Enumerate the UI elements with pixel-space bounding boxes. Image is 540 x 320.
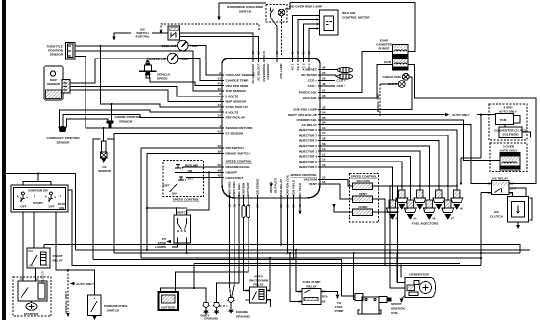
pin 12 INJECTOR 4	[299, 152, 326, 158]
svg-text:7: 7	[219, 108, 221, 112]
svg-text:EGR: EGR	[384, 60, 391, 64]
evap canister purge solenoid L1	[376, 39, 408, 58]
junction dot	[103, 127, 105, 129]
border bar left	[2, 0, 6, 320]
svg-text:PWR GRD: PWR GRD	[232, 181, 236, 197]
pin 34 AC RELAY	[301, 121, 326, 127]
svg-text:15: 15	[322, 158, 326, 162]
fuel injector #6	[423, 200, 436, 221]
svg-text:SENSOR RETURN: SENSOR RETURN	[226, 126, 254, 130]
wire asd relay coil right	[267, 258, 271, 291]
A/C clutch	[490, 197, 532, 230]
wire dashed A/C clutch sense	[161, 24, 259, 31]
A/C switch 4-dr panel	[112, 26, 179, 41]
svg-text:OVERDR SOL: OVERDR SOL	[297, 118, 318, 122]
svg-text:PWR GRD: PWR GRD	[227, 181, 231, 197]
node TO STOP LAMPS	[155, 237, 171, 249]
junction dot	[111, 103, 113, 105]
wire dashed O/D lamp to pin 37	[281, 16, 283, 55]
svg-text:RESUME/ACCEL: RESUME/ACCEL	[226, 165, 251, 169]
overdrive solenoid enclosure	[490, 143, 527, 172]
pin 36 AC SELECT top	[257, 51, 261, 81]
svg-text:MANUAL ONLY: MANUAL ONLY	[64, 290, 68, 313]
fuel injector #7	[442, 200, 455, 221]
pin 21 CHARGE TEMP	[216, 76, 248, 82]
wire camshaft sensor third lead	[67, 119, 109, 127]
TCM dashed enclosure	[489, 104, 528, 140]
ground G1 body	[201, 303, 211, 318]
svg-text:45: 45	[322, 66, 326, 70]
fuel injector #4	[404, 200, 417, 221]
pin 20 GEN FIELD bottom	[292, 179, 296, 207]
pin 46 CCD -	[308, 82, 326, 88]
svg-text:OFF: OFF	[48, 205, 54, 209]
svg-text:VEH SPD SENS: VEH SPD SENS	[226, 84, 249, 88]
pin 2 COOLANT SENSOR	[216, 71, 255, 77]
vehicle speed sensor	[139, 60, 170, 80]
wire speed control resume to pin 50	[183, 166, 216, 168]
fuel injector #2	[396, 190, 409, 211]
svg-text:A/C: A/C	[494, 210, 500, 214]
auto shut-down relay K3	[246, 275, 271, 304]
svg-text:ASD RELAY: ASD RELAY	[279, 178, 283, 197]
svg-text:24: 24	[218, 113, 222, 117]
wire IAC B to pin 40	[298, 20, 320, 56]
svg-text:I.P. TACH: I.P. TACH	[298, 182, 302, 196]
wire injector pin 13	[326, 130, 457, 190]
svg-text:30: 30	[488, 191, 492, 195]
svg-text:4: 4	[219, 124, 221, 128]
svg-text:O/D LAMP: O/D LAMP	[279, 64, 283, 79]
svg-text:SENSOR: SENSOR	[47, 82, 61, 86]
svg-text:TEMP: TEMP	[180, 57, 189, 61]
bus y263.5	[194, 263, 460, 265]
wire egr solenoid feed to A/C relay 86	[408, 65, 536, 184]
wire injector pin 16	[326, 167, 392, 200]
wire A/C relay 87 to clutch	[509, 193, 513, 197]
svg-text:AUTO ONLY: AUTO ONLY	[499, 110, 518, 114]
MAP sensor	[44, 66, 70, 100]
pin 1 MAP SENSOR	[216, 98, 247, 104]
svg-text:START: START	[53, 254, 63, 258]
svg-text:SENSOR: SENSOR	[119, 120, 133, 124]
svg-text:CCD +: CCD +	[308, 79, 318, 83]
svg-text:4-DR PNL: 4-DR PNL	[135, 35, 149, 39]
svg-text:50: 50	[218, 163, 222, 167]
pin 38 INJECTOR 5	[299, 137, 326, 143]
wire asd relay pin 51	[280, 202, 282, 245]
generator G	[400, 273, 436, 304]
pin 23 VACUUM	[304, 176, 326, 182]
charge air temp gauge	[147, 53, 189, 64]
svg-text:ET SENSOR: ET SENSOR	[226, 132, 245, 136]
svg-text:SWITCH: SWITCH	[107, 309, 120, 313]
svg-text:VENT: VENT	[309, 182, 317, 186]
svg-text:AUTO ONLY: AUTO ONLY	[76, 282, 95, 286]
svg-text:BAT: BAT	[29, 249, 34, 253]
svg-text:CLUTCH: CLUTCH	[490, 215, 503, 219]
wire start relay to starter	[35, 268, 37, 281]
pin 60 AC 3 top	[302, 51, 306, 71]
speed control servo assembly	[350, 174, 379, 223]
svg-text:30: 30	[218, 144, 222, 148]
svg-text:23: 23	[322, 176, 326, 180]
wire camshaft sensor to pin 7	[60, 110, 217, 127]
wire sig grd to body ground 2	[217, 202, 240, 303]
svg-text:O/D OVER RIDE LAMP: O/D OVER RIDE LAMP	[289, 5, 322, 9]
wire generator lower feed	[396, 253, 398, 283]
svg-text:14: 14	[322, 147, 326, 151]
svg-text:30: 30	[20, 277, 23, 281]
wire ignition coil feed 1	[342, 260, 356, 297]
svg-text:SENSOR: SENSOR	[56, 141, 70, 145]
wire IAC D to pin 58	[309, 29, 320, 55]
wire generator top feed	[400, 266, 402, 278]
pin 45 COAST/SET	[216, 174, 243, 180]
pin 13 INJECTOR 3	[299, 126, 326, 132]
svg-text:AC 3: AC 3	[302, 63, 306, 70]
pin 11 PWR GRD bottom	[227, 181, 231, 207]
ignition coil T1	[355, 294, 406, 316]
wire sd trans to CCD	[326, 75, 338, 77]
wire MAP to charge gauge	[70, 59, 167, 83]
fuel injector #3	[414, 190, 427, 211]
svg-text:PURGE: PURGE	[378, 47, 389, 51]
battery B1	[159, 290, 179, 310]
svg-text:TEMP: TEMP	[190, 44, 199, 48]
svg-text:OUTPUTS: OUTPUTS	[274, 178, 278, 193]
wire injector pin 58	[326, 146, 429, 200]
pin 40 AC 2 top	[296, 51, 300, 71]
wire injector pin 14	[326, 151, 420, 190]
idle air control motor M1	[316, 10, 370, 35]
wire body ground riser	[194, 264, 206, 303]
wire speed control vent	[326, 184, 353, 199]
wire chk eng lamp	[326, 77, 412, 110]
bus ignition run y250	[76, 249, 531, 251]
wire speed control on/off to pin 49	[175, 171, 216, 173]
svg-text:VACUUM: VACUUM	[304, 178, 318, 182]
bus injector feed	[390, 185, 457, 187]
wire gen field pin 20	[293, 202, 295, 258]
speed control switch assembly S4	[163, 161, 204, 202]
EGR solenoid L2	[384, 59, 408, 71]
svg-text:PUMP: PUMP	[335, 309, 344, 313]
svg-text:OFF: OFF	[163, 184, 169, 188]
pin 22 THR SENSOR	[216, 87, 247, 93]
coolant temp gauge	[161, 40, 198, 51]
svg-text:EGR SOL: EGR SOL	[303, 96, 317, 100]
A/C relay K1	[488, 177, 517, 196]
svg-text:34: 34	[322, 121, 326, 125]
ignition switch S2	[11, 185, 68, 212]
node AUTO ONLY / MANUAL ONLY left	[64, 270, 95, 317]
svg-text:13: 13	[322, 126, 326, 130]
wire injector pin 38	[326, 141, 439, 191]
wire servo ground	[334, 204, 353, 212]
pin 7 8 VOLTS	[216, 108, 238, 114]
svg-text:55: 55	[322, 116, 326, 120]
svg-text:SENSOR: SENSOR	[50, 53, 64, 57]
svg-text:FUEL PUMP: FUEL PUMP	[303, 280, 321, 284]
wire asd sense pin 57	[257, 202, 259, 287]
wire brake to battery bus	[186, 243, 188, 253]
svg-text:SD TRANS: SD TRANS	[301, 73, 317, 77]
svg-text:STARTER: STARTER	[24, 312, 39, 316]
pin 27 AC REQUEST top	[251, 51, 255, 84]
svg-text:32: 32	[322, 105, 326, 109]
svg-text:THR SENSOR: THR SENSOR	[226, 89, 247, 93]
svg-text:SPEED CONTROL: SPEED CONTROL	[290, 173, 317, 177]
svg-text:GROUND: GROUND	[204, 317, 219, 320]
wire A/C relay 87A to clutch	[509, 188, 526, 197]
bus ignition run y244	[44, 245, 520, 254]
svg-text:INJECTOR 1: INJECTOR 1	[299, 149, 317, 153]
pin 51 ASD RELAY bottom	[279, 178, 283, 207]
svg-text:IGNITION COIL: IGNITION COIL	[286, 174, 290, 196]
svg-text:86: 86	[322, 300, 326, 304]
svg-text:GROUND: GROUND	[236, 315, 251, 319]
wire IAC A to pin 59	[293, 15, 320, 55]
svg-text:6: 6	[219, 92, 221, 96]
wire A/C switch to pin 27	[180, 33, 254, 55]
svg-text:21: 21	[218, 76, 222, 80]
pin 45 SD REC	[305, 66, 326, 72]
camshaft position sensor	[47, 126, 81, 144]
CCD bus connector upper	[338, 67, 353, 72]
svg-text:2: 2	[219, 71, 221, 75]
svg-text:SIG GRD: SIG GRD	[237, 183, 241, 197]
svg-text:INPUTS: INPUTS	[269, 182, 273, 193]
svg-text:BRAKE: BRAKE	[176, 206, 187, 210]
pin 54 SHIFT UP/LOCK-UP	[288, 111, 326, 117]
wire O2 sensor left leg to ground bus	[93, 139, 101, 260]
svg-text:GENERATOR: GENERATOR	[409, 273, 429, 277]
svg-text:12: 12	[322, 152, 326, 156]
node CCD -	[326, 84, 346, 88]
svg-text:38: 38	[322, 137, 326, 141]
svg-text:SHIFT UP/LOCK-UP: SHIFT UP/LOCK-UP	[288, 113, 317, 117]
pin 15 INJECTOR 8	[299, 158, 326, 164]
svg-text:IGNITION: IGNITION	[391, 307, 406, 311]
svg-text:INJECTOR 4: INJECTOR 4	[299, 155, 317, 159]
svg-text:G: G	[47, 264, 49, 268]
wire dashed manual only drop	[379, 84, 381, 115]
svg-text:INJECTOR 6: INJECTOR 6	[299, 144, 317, 148]
svg-text:OVERDRIVE OVER-RIDE: OVERDRIVE OVER-RIDE	[227, 5, 263, 9]
svg-text:START: START	[33, 201, 43, 205]
svg-text:AUTO ONLY: AUTO ONLY	[500, 149, 519, 153]
O2 sensor	[98, 141, 112, 173]
svg-text:INJECTOR 8: INJECTOR 8	[299, 160, 317, 164]
pin 43 I.P. TACH bottom	[298, 182, 302, 207]
wire purge sol to evap solenoid	[326, 52, 393, 93]
svg-text:IGNITION: IGNITION	[242, 182, 246, 197]
wire ignition off1 to starter solenoid	[22, 212, 24, 281]
wire node A to sync pick-up pin 44	[101, 46, 217, 107]
starter motor M2	[13, 271, 51, 316]
pin 49 ON/OFF	[216, 168, 237, 174]
pin 32 CHK ENG LAMP	[293, 105, 326, 111]
wire pwr grd 11 to engine ground	[229, 202, 230, 298]
svg-text:ENGINE: ENGINE	[236, 310, 248, 314]
svg-text:AUTO ONLY: AUTO ONLY	[452, 113, 471, 117]
wire tach pin 43 arrow	[299, 202, 301, 210]
pin 53 VENT	[309, 180, 326, 186]
pin 41 ET SENSOR	[216, 129, 244, 135]
svg-text:SOLENOID: SOLENOID	[503, 166, 517, 170]
svg-text:49: 49	[218, 168, 222, 172]
svg-text:CONTROL MOTOR: CONTROL MOTOR	[342, 16, 370, 20]
wire servo vent solenoid right	[373, 199, 386, 266]
wire TPS ground to pin 4 sensor return	[75, 57, 216, 129]
wire TCM riser	[480, 115, 482, 158]
pin 35 EGR SOL	[303, 94, 326, 100]
svg-text:MANUAL ONLY: MANUAL ONLY	[376, 93, 380, 112]
svg-text:SENSOR: SENSOR	[98, 169, 112, 173]
svg-text:BRAKE SWITCH: BRAKE SWITCH	[226, 152, 251, 156]
svg-text:AC SELECT: AC SELECT	[257, 63, 261, 81]
svg-text:50: 50	[36, 277, 39, 281]
wire battery pin 3	[176, 202, 249, 290]
svg-text:29: 29	[218, 149, 222, 153]
pin 58 AC 4 top	[307, 51, 311, 71]
wire top feed to evap solenoid	[285, 3, 415, 52]
wire TPS supply to coolant gauge	[75, 45, 178, 47]
svg-text:CHARGE TEMP: CHARGE TEMP	[226, 79, 249, 83]
svg-text:SWITCH: SWITCH	[239, 10, 252, 14]
node TO FUEL PUMP	[335, 295, 344, 314]
pin 5 SIG GRD bottom	[237, 183, 241, 206]
svg-text:CHK ENG LAMP: CHK ENG LAMP	[293, 108, 317, 112]
svg-text:SPORT: SPORT	[391, 302, 402, 306]
start relay K2	[27, 248, 64, 268]
wire sd rec to CCD	[326, 69, 338, 71]
wire ignition feed from panel	[6, 174, 76, 186]
wire injector pin 17	[326, 135, 448, 200]
pin 4 SENSOR RETURN	[216, 124, 253, 130]
wire brake switch pin 29	[147, 153, 216, 250]
wire camshaft sensor to pin 24	[63, 115, 216, 127]
svg-text:1: 1	[219, 98, 221, 102]
svg-text:AC 4: AC 4	[307, 63, 311, 70]
wire converter clutch right hook	[522, 132, 531, 138]
wire injector pin 12	[326, 156, 410, 200]
check engine lamp DS2	[382, 73, 409, 80]
svg-text:53: 53	[322, 180, 326, 184]
wire TPS signal to pin 22	[75, 51, 216, 91]
wire battery negative to body ground	[161, 288, 195, 290]
node CCD +	[326, 79, 346, 83]
svg-text:AC RELAY: AC RELAY	[301, 123, 317, 127]
ground G2 body	[204, 303, 220, 320]
pin 30 P/N SWITCH	[216, 144, 244, 150]
svg-text:ON: ON	[59, 206, 64, 210]
wire MAP to pin 6	[70, 87, 216, 97]
svg-text:COIL: COIL	[391, 311, 399, 315]
label INPUTS/OUTPUTS bottom	[269, 178, 278, 193]
svg-text:CCD −: CCD −	[308, 84, 318, 88]
svg-text:45: 45	[218, 174, 222, 178]
svg-text:COAST/SET: COAST/SET	[226, 176, 244, 180]
svg-text:INJECTOR 5: INJECTOR 5	[299, 139, 317, 143]
svg-text:IDLE AIR: IDLE AIR	[342, 11, 356, 15]
wire overdrive switch to pin 10/37	[271, 18, 278, 56]
svg-text:CCD +: CCD +	[337, 79, 347, 83]
svg-text:CAMSHAFT POSITION: CAMSHAFT POSITION	[47, 136, 81, 140]
svg-text:IGNITION ON: IGNITION ON	[28, 189, 48, 193]
pin 19 IGNITION COIL bottom	[286, 174, 290, 207]
fuel injector #1	[386, 200, 399, 221]
wire brake switch feed	[187, 172, 210, 215]
pin 52 PURGE SOL	[299, 89, 326, 95]
pin 41 VEH SPD SENS	[216, 82, 248, 88]
svg-text:87A: 87A	[510, 187, 516, 191]
svg-text:SPEED CONTROL: SPEED CONTROL	[226, 160, 253, 164]
pin 17 INJECTOR 7	[299, 131, 326, 137]
svg-text:17: 17	[322, 131, 326, 135]
fuse link F2	[247, 206, 250, 218]
svg-text:PARK/NEUTRAL: PARK/NEUTRAL	[104, 304, 128, 308]
wire ignition off to P/N switch	[56, 212, 95, 295]
pin 3 BATTERY bottom	[246, 181, 250, 205]
svg-text:SOL: SOL	[29, 264, 35, 268]
pin 55 OVERDR SOL	[297, 116, 326, 122]
pin 29 BRAKE SWITCH	[216, 149, 250, 155]
wire shift up to TCM auto only	[326, 114, 445, 116]
svg-text:OVERRIDE: OVERRIDE	[266, 64, 270, 80]
wire coolant gauge to pin 2	[188, 46, 216, 76]
label SPEED CONTROL right header	[290, 173, 317, 177]
wire overdr sol to overdrive solenoid	[326, 120, 500, 160]
pin 9 IGNITION bottom	[242, 182, 246, 206]
svg-text:46: 46	[322, 82, 326, 86]
wire brake to stop lamps	[172, 243, 178, 247]
svg-text:PURGE SOL: PURGE SOL	[299, 91, 317, 95]
wire fuel pump relay 87 to pump	[321, 292, 338, 295]
overdrive over-ride switch S1	[217, 3, 287, 22]
svg-text:35: 35	[322, 94, 326, 98]
svg-text:SOLENOID: SOLENOID	[41, 271, 45, 285]
svg-text:8 VOLTS: 8 VOLTS	[226, 110, 239, 114]
wire A/C switch to pin 36	[180, 37, 259, 56]
pin 14 INJECTOR 1	[299, 147, 326, 153]
crank position sensor	[107, 115, 143, 128]
wire speed control vacuum	[326, 180, 353, 187]
pin 16 INJECTOR 2	[299, 163, 326, 169]
svg-text:25: 25	[322, 71, 326, 75]
svg-text:SPEED: SPEED	[157, 77, 168, 81]
svg-text:54: 54	[322, 111, 326, 115]
wire speed control set to pin 45	[186, 177, 216, 179]
wire O2 sensor top feed	[103, 128, 105, 141]
wire MAP to pin 1	[70, 90, 216, 102]
fuel pump relay K4	[298, 280, 328, 305]
wire IAC C to pin 60	[304, 24, 320, 55]
wire asd relay 86 feed	[244, 202, 250, 291]
wire ac relay pin 34	[326, 125, 492, 184]
bus y266 asd out	[68, 190, 481, 266]
pin 6 5 VOLTS	[216, 92, 238, 98]
shift lamp DS3	[388, 81, 405, 88]
pin 58 INJECTOR 6	[299, 142, 326, 148]
wire pwr grd 12 to engine ground	[232, 202, 235, 298]
svg-text:41: 41	[218, 129, 222, 133]
fuel injector #8	[451, 190, 464, 211]
bus ground y259.5	[93, 259, 342, 261]
wire injector bus riser	[390, 186, 405, 288]
CCD bus connector lower	[338, 74, 353, 79]
